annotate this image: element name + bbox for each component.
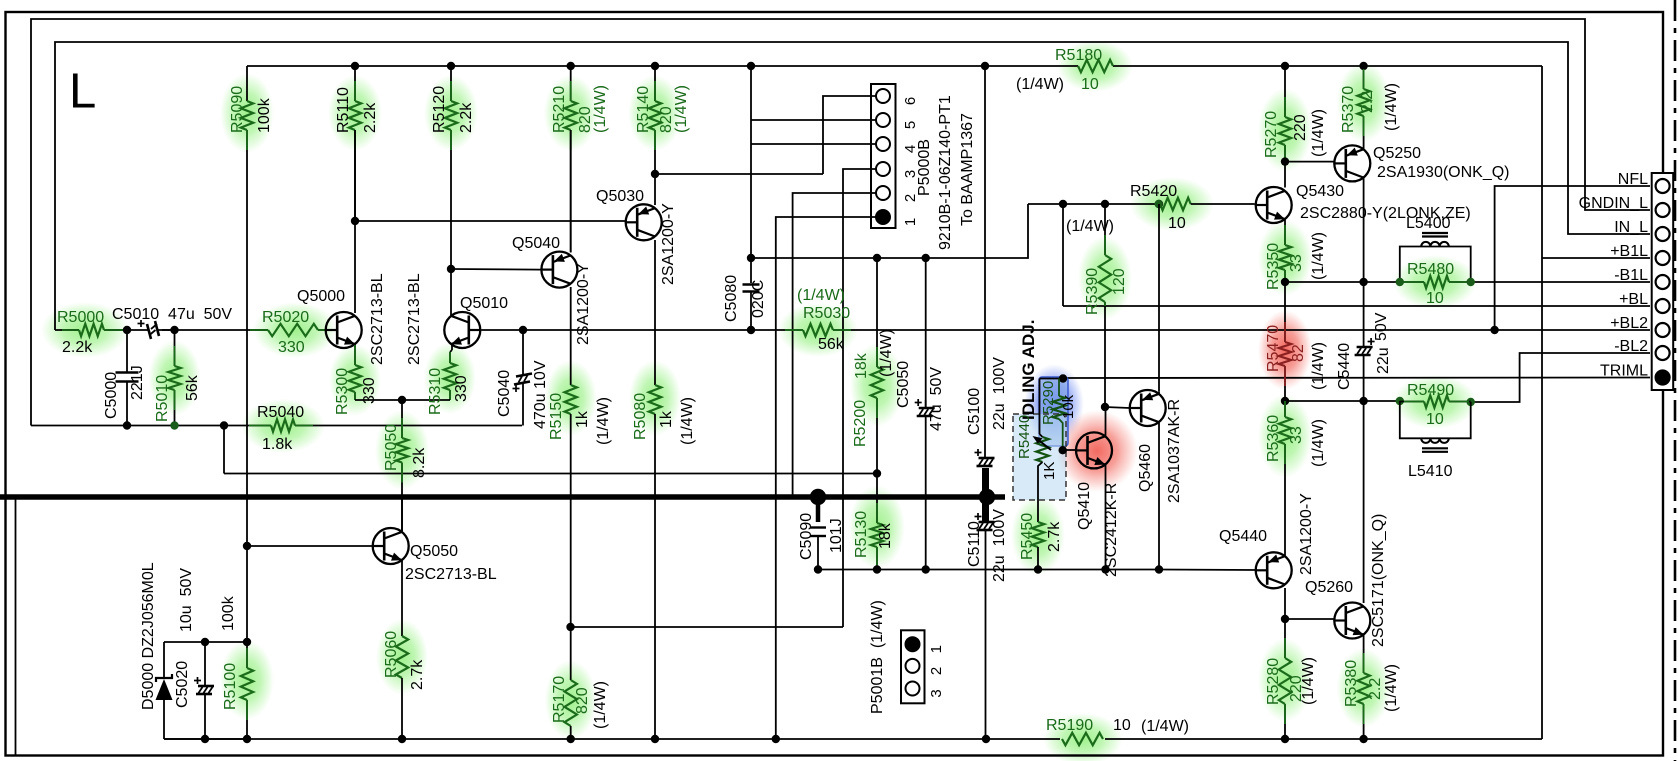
svg-text:(1/4W): (1/4W): [1383, 83, 1400, 131]
svg-text:R5010: R5010: [154, 375, 171, 422]
svg-text:1: 1: [902, 218, 919, 226]
svg-text:10: 10: [1426, 411, 1444, 428]
svg-text:1K: 1K: [1041, 462, 1058, 480]
svg-text:2.2: 2.2: [1367, 678, 1384, 700]
svg-text:8.2k: 8.2k: [411, 447, 428, 478]
svg-text:56k: 56k: [818, 336, 845, 353]
svg-text:220: 220: [1292, 114, 1309, 141]
svg-text:Q5430: Q5430: [1296, 183, 1344, 200]
svg-text:2SC2713-BL: 2SC2713-BL: [405, 566, 497, 583]
svg-text:C5050: C5050: [895, 361, 912, 408]
svg-text:Q5440: Q5440: [1219, 528, 1267, 545]
svg-text:R5310: R5310: [427, 368, 444, 415]
svg-text:D5000 DZ2J056M0L: D5000 DZ2J056M0L: [140, 562, 157, 710]
svg-text:Q5000: Q5000: [297, 288, 345, 305]
svg-text:C5080: C5080: [723, 275, 740, 322]
svg-text:R5490: R5490: [1407, 382, 1454, 399]
svg-text:NFL: NFL: [1618, 171, 1648, 188]
svg-text:C5090: C5090: [798, 513, 815, 560]
svg-text:R5140: R5140: [635, 86, 652, 133]
svg-text:+B1L: +B1L: [1610, 243, 1648, 260]
svg-text:Q5030: Q5030: [596, 188, 644, 205]
svg-text:10: 10: [1426, 290, 1444, 307]
svg-text:2SC2713-BL: 2SC2713-BL: [406, 273, 423, 365]
svg-text:C5440: C5440: [1336, 343, 1353, 390]
svg-text:1.8k: 1.8k: [262, 436, 293, 453]
svg-text:R5120: R5120: [431, 86, 448, 133]
svg-text:6: 6: [902, 97, 919, 105]
svg-text:100k: 100k: [220, 595, 237, 631]
svg-text:R5020: R5020: [262, 309, 309, 326]
svg-text:R5060: R5060: [383, 631, 400, 678]
svg-text:18k: 18k: [877, 522, 894, 549]
svg-text:R5270: R5270: [1263, 111, 1280, 158]
svg-text:2: 2: [928, 667, 945, 675]
svg-text:Q5460: Q5460: [1137, 444, 1154, 492]
svg-text:(1/4W): (1/4W): [1310, 232, 1327, 280]
svg-text:R5370: R5370: [1340, 86, 1357, 133]
svg-text:R5050: R5050: [383, 424, 400, 471]
svg-text:2SA1200-Y: 2SA1200-Y: [575, 263, 592, 345]
svg-text:50V: 50V: [1373, 312, 1390, 341]
svg-text:L5410: L5410: [1408, 463, 1453, 480]
svg-text:10u 50V: 10u 50V: [178, 568, 195, 632]
svg-text:C5020: C5020: [174, 661, 191, 708]
svg-text:22u: 22u: [1375, 347, 1392, 374]
svg-text:2SA1930(ONK_Q): 2SA1930(ONK_Q): [1377, 164, 1510, 181]
svg-text:(1/4W): (1/4W): [592, 85, 609, 133]
svg-text:Q5260: Q5260: [1305, 579, 1353, 596]
svg-text:-B1L: -B1L: [1614, 267, 1648, 284]
svg-text:221J: 221J: [129, 365, 146, 400]
svg-text:(1/4W): (1/4W): [1310, 419, 1327, 467]
svg-text:IDLING ADJ.: IDLING ADJ.: [1019, 320, 1038, 420]
svg-text:P5000B: P5000B: [916, 139, 933, 196]
svg-text:TRIML: TRIML: [1600, 363, 1648, 380]
svg-text:C5000: C5000: [103, 372, 120, 419]
svg-text:82: 82: [1290, 344, 1307, 362]
svg-text:(1/4W): (1/4W): [1300, 657, 1317, 705]
svg-text:L: L: [69, 65, 96, 119]
svg-text:R5390: R5390: [1084, 268, 1101, 315]
svg-text:+BL2: +BL2: [1610, 315, 1648, 332]
svg-text:10: 10: [1113, 717, 1131, 734]
svg-text:R5180: R5180: [1055, 47, 1102, 64]
svg-text:C5110: C5110: [966, 521, 983, 567]
svg-text:(1/4W): (1/4W): [1310, 342, 1327, 390]
svg-text:R5480: R5480: [1407, 261, 1454, 278]
svg-text:C5040: C5040: [496, 370, 513, 417]
svg-text:820: 820: [574, 687, 591, 714]
svg-text:2.2: 2.2: [1359, 91, 1376, 113]
svg-text:020C: 020C: [750, 280, 767, 318]
svg-text:2SA1037AK-R: 2SA1037AK-R: [1166, 399, 1183, 503]
svg-text:R5030: R5030: [803, 305, 850, 322]
svg-text:(1/4W): (1/4W): [878, 329, 895, 377]
svg-text:Q5040: Q5040: [512, 235, 560, 252]
svg-text:22u 100V: 22u 100V: [991, 357, 1008, 430]
svg-text:R5290: R5290: [1040, 381, 1057, 425]
svg-text:R5170: R5170: [551, 676, 568, 723]
svg-text:R5080: R5080: [632, 393, 649, 440]
svg-text:Q5410: Q5410: [1076, 482, 1093, 530]
svg-text:R5130: R5130: [853, 511, 870, 558]
svg-text:2.2k: 2.2k: [62, 339, 93, 356]
svg-text:GNDIN_L: GNDIN_L: [1579, 195, 1648, 212]
svg-text:R5090: R5090: [229, 86, 246, 133]
svg-text:330: 330: [361, 377, 378, 404]
svg-text:IN_L: IN_L: [1614, 219, 1648, 236]
svg-text:56k: 56k: [184, 374, 201, 401]
svg-text:3: 3: [928, 689, 945, 697]
svg-text:101J: 101J: [828, 518, 845, 553]
svg-text:10k: 10k: [1060, 394, 1077, 419]
svg-text:Q5050: Q5050: [410, 543, 458, 560]
svg-text:R5210: R5210: [551, 86, 568, 133]
svg-text:10: 10: [1168, 215, 1186, 232]
svg-text:1k: 1k: [574, 410, 591, 428]
svg-text:P5001B (1/4W): P5001B (1/4W): [869, 600, 886, 714]
svg-text:C5100: C5100: [966, 388, 983, 435]
svg-text:2SC2412K-R: 2SC2412K-R: [1103, 483, 1120, 577]
svg-text:(1/4W): (1/4W): [1016, 76, 1064, 93]
svg-text:(1/4W): (1/4W): [1141, 718, 1189, 735]
svg-text:R5420: R5420: [1130, 183, 1177, 200]
svg-text:R5190: R5190: [1046, 717, 1093, 734]
svg-text:(1/4W): (1/4W): [679, 397, 696, 445]
svg-text:R5110: R5110: [335, 87, 352, 133]
svg-text:R5440: R5440: [1016, 415, 1033, 459]
svg-text:33: 33: [1288, 426, 1305, 444]
svg-text:(1/4W): (1/4W): [1310, 109, 1327, 157]
svg-text:R5380: R5380: [1343, 660, 1360, 707]
svg-text:2SA1200-Y: 2SA1200-Y: [660, 203, 677, 285]
svg-text:R5000: R5000: [57, 309, 104, 326]
svg-text:(1/4W): (1/4W): [673, 85, 690, 133]
svg-text:To BAAMP1367: To BAAMP1367: [959, 113, 976, 226]
svg-text:R5280: R5280: [1265, 658, 1282, 705]
svg-text:33: 33: [1288, 254, 1305, 272]
svg-text:330: 330: [278, 339, 305, 356]
svg-text:L5400: L5400: [1406, 215, 1451, 232]
svg-text:(1/4W): (1/4W): [592, 681, 609, 729]
svg-text:Q5250: Q5250: [1373, 145, 1421, 162]
svg-text:(1/4W): (1/4W): [797, 287, 845, 304]
svg-text:47u 50V: 47u 50V: [928, 367, 945, 431]
svg-text:1: 1: [928, 645, 945, 653]
svg-text:R5450: R5450: [1019, 513, 1036, 560]
svg-text:2.2k: 2.2k: [362, 102, 379, 133]
svg-text:R5470: R5470: [1265, 325, 1282, 372]
svg-text:R5040: R5040: [257, 404, 304, 421]
svg-text:100k: 100k: [256, 97, 273, 133]
svg-text:Q5010: Q5010: [460, 295, 508, 312]
svg-text:R5150: R5150: [548, 393, 565, 440]
svg-text:R5300: R5300: [334, 368, 351, 415]
svg-text:(1/4W): (1/4W): [595, 397, 612, 445]
svg-text:1k: 1k: [658, 410, 675, 428]
svg-text:2SC2713-BL: 2SC2713-BL: [369, 273, 386, 365]
svg-text:(1/4W): (1/4W): [1383, 664, 1400, 712]
svg-text:10: 10: [1081, 76, 1099, 93]
svg-text:18k: 18k: [853, 352, 870, 379]
svg-text:9210B-1-06Z140-PT1: 9210B-1-06Z140-PT1: [937, 95, 954, 250]
svg-text:+BL: +BL: [1619, 291, 1648, 308]
svg-text:R5360: R5360: [1265, 415, 1282, 462]
svg-text:2.7k: 2.7k: [1046, 521, 1063, 552]
svg-text:330: 330: [453, 375, 470, 402]
svg-text:-BL2: -BL2: [1614, 338, 1648, 355]
svg-text:R5350: R5350: [1265, 243, 1282, 290]
svg-text:2.7k: 2.7k: [409, 659, 426, 690]
svg-text:R5200: R5200: [852, 400, 869, 447]
svg-text:22u 100V: 22u 100V: [991, 509, 1008, 582]
svg-text:C5010 47u 50V: C5010 47u 50V: [112, 306, 232, 323]
svg-text:470u 10V: 470u 10V: [532, 360, 549, 429]
svg-text:2SC5171(ONK_Q): 2SC5171(ONK_Q): [1370, 514, 1387, 647]
svg-text:120: 120: [1111, 268, 1128, 295]
svg-text:(1/4W): (1/4W): [1066, 218, 1114, 235]
svg-text:2.2k: 2.2k: [458, 102, 475, 133]
svg-text:5: 5: [902, 121, 919, 129]
svg-text:R5100: R5100: [222, 663, 239, 710]
svg-text:2SA1200-Y: 2SA1200-Y: [1298, 493, 1315, 575]
